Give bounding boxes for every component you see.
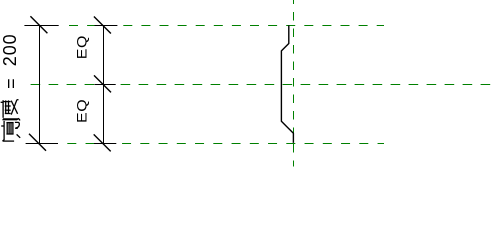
witness line D2 middle [95, 84, 116, 86]
witness line D1 top [24, 25, 58, 27]
witness line D1 bottom [26, 143, 58, 145]
svg-text:=: = [1, 78, 21, 89]
reference plane middle (horizontal, green dashed) [31, 84, 491, 86]
witness line D2 top [95, 25, 118, 27]
label CJK glyph 度 (rotated, hand-drawn in screen coords) [1, 100, 20, 121]
profile outline (black polyline) [281, 25, 293, 142]
tick D2 bottom [94, 134, 111, 151]
reference plane vertical (green dashed) [293, 0, 295, 167]
svg-text:EQ: EQ [76, 99, 91, 123]
tick D2 top [94, 17, 111, 34]
tick D1 bottom [29, 134, 46, 151]
reference plane top (horizontal, green dashed) [69, 25, 384, 27]
reference plane bottom (horizontal, green dashed) [67, 143, 384, 145]
tick D1 top [30, 16, 47, 33]
label CJK glyph 寬 (rotated, hand-drawn in screen coords) [1, 118, 20, 141]
dimension D2 line (EQ dimension) [103, 25, 105, 144]
dimension D1 line (overall width) [39, 25, 41, 144]
svg-text:200: 200 [0, 33, 20, 66]
tick D2 middle [94, 75, 111, 92]
witness line D2 bottom [94, 143, 116, 145]
svg-text:EQ: EQ [76, 35, 91, 59]
